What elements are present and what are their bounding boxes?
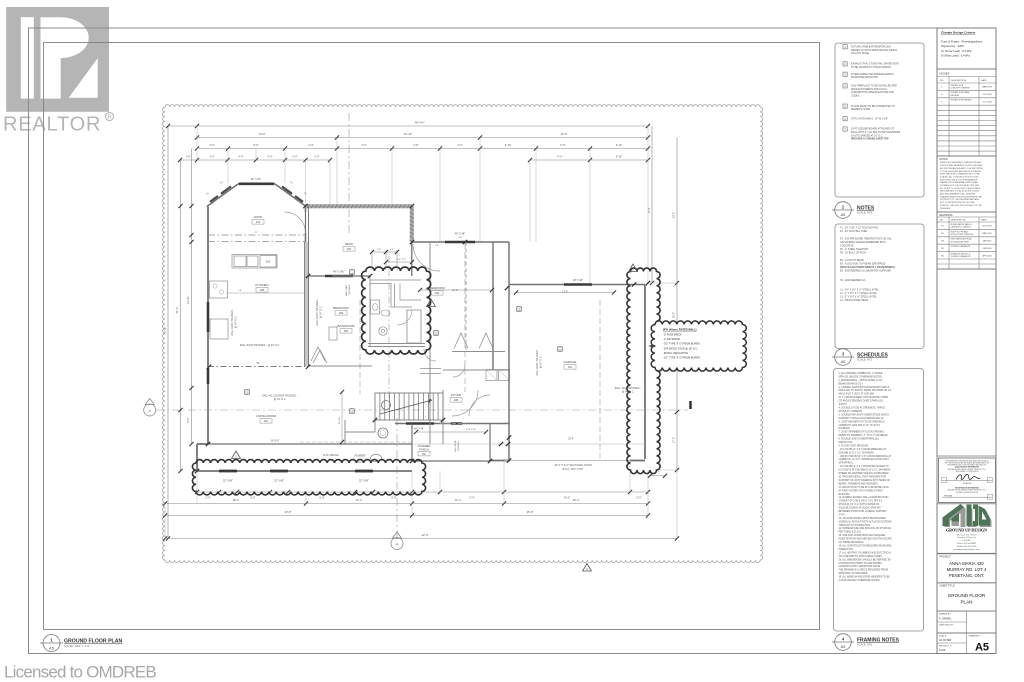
svg-text:TO THE DESIGNER BEFORE PROCEED: TO THE DESIGNER BEFORE PROCEEDING — [940, 171, 981, 173]
dimension drop lines from top tiers — [196, 126, 198, 160]
beam dash line kitchen y241.5 — [208, 241, 306, 243]
front door bars — [406, 422, 434, 424]
svg-text:15. SUB-SOIL CONDITIONS MAY RE: 15. SUB-SOIL CONDITIONS MAY REQUIRE — [839, 534, 886, 537]
svg-text:3'-0": 3'-0" — [209, 143, 214, 147]
svg-text:CHECKED BY:: CHECKED BY: — [939, 624, 954, 626]
svg-text:NOT TO BE REPRODUCED OR USED: NOT TO BE REPRODUCED OR USED — [940, 202, 976, 204]
svg-text:13'-2": 13'-2" — [673, 212, 676, 218]
svg-text:L3 - 5" X 3½" X ⅜" STEEL LINTE: L3 - 5" X 3½" X ⅜" STEEL LINTEL — [840, 295, 877, 299]
svg-text:Gr (Snow Load) : 2.9 kPa: Gr (Snow Load) : 2.9 kPa — [941, 49, 972, 53]
svg-text:OF THESE DRAWINGS: OF THESE DRAWINGS — [839, 541, 864, 544]
svg-text:NO.: NO. — [940, 220, 944, 222]
svg-text:MONOXIDE DETECTOR: MONOXIDE DETECTOR — [851, 76, 878, 79]
bay diag left window bars — [221, 187, 231, 194]
svg-text:@ 24" O.C.: @ 24" O.C. — [622, 391, 635, 394]
svg-text:SUPPORT OF JOIST FRAMING INTO: SUPPORT OF JOIST FRAMING INTO SIDES OF — [839, 479, 891, 482]
svg-text:STRAPPING): STRAPPING) — [839, 462, 853, 465]
svg-text:20'-8": 20'-8" — [285, 510, 292, 514]
svg-text:8'-0": 8'-0" — [253, 143, 258, 147]
y444 grid line extension — [412, 443, 645, 445]
kitchen corner pantry chevrons — [311, 347, 325, 361]
grid centerline horizontal — [156, 409, 688, 411]
svg-text:BUILDING: BUILDING — [839, 494, 850, 496]
hall south wall y370 — [443, 369, 510, 371]
grid marker west — [144, 404, 156, 416]
svg-text:4'-0": 4'-0" — [239, 156, 244, 159]
svg-text:DESIGNER.: DESIGNER. — [940, 208, 951, 210]
svg-text:SITE SERVICES PLAN: SITE SERVICES PLAN — [951, 238, 972, 241]
svg-text:MM (1-9/16" X 3/16") AT 2000 M: MM (1-9/16" X 3/16") AT 2000 MM — [839, 393, 874, 396]
kitchen east shear wall band — [305, 242, 309, 367]
svg-text:12. DOUBLE STOREY WALL CONSTRU: 12. DOUBLE STOREY WALL CONSTRUCTION — [839, 496, 889, 499]
svg-text:28'-0": 28'-0" — [233, 498, 240, 502]
svg-text:3'-0": 3'-0" — [293, 156, 298, 159]
kitchen fridge — [210, 319, 228, 339]
bedroom north wall y276 — [308, 275, 370, 277]
bottom dim drop lines — [164, 504, 166, 539]
svg-text:WHERE NO FINISHED CEILING IS P: WHERE NO FINISHED CEILING IS PROVIDED — [839, 473, 889, 475]
left dim horizontal stub — [168, 125, 197, 127]
left exterior wall — [207, 207, 209, 445]
kitchen counter band — [232, 255, 277, 269]
svg-text:Township of Tiny Ont.: Township of Tiny Ont. — [957, 536, 977, 539]
inner drawing area border — [44, 43, 820, 630]
svg-text:800MM TO 2000MM (2'-7" TO 6'-7: 800MM TO 2000MM (2'-7" TO 6'-7") DOUBLED — [839, 435, 888, 437]
svg-text:PLAN: PLAN — [960, 599, 972, 604]
bathroom tub — [407, 310, 421, 343]
svg-text:NOV 2019: NOV 2019 — [982, 226, 992, 228]
triangle marker near cloud band — [629, 264, 638, 272]
svg-text:DATE: DATE — [981, 79, 987, 82]
revisions rows — [937, 228, 996, 230]
svg-text:THROUGH TO FOUNDATION: THROUGH TO FOUNDATION — [839, 524, 871, 527]
svg-text:NO.: NO. — [940, 80, 944, 82]
svg-text:TOWNS COMMENTS: TOWNS COMMENTS — [951, 246, 971, 248]
svg-text:ROOF SLOPE AND: ROOF SLOPE AND — [951, 230, 969, 233]
svg-text:3'-2": 3'-2" — [402, 259, 407, 261]
living room south wall y444 — [208, 443, 412, 445]
deck east wall lower extension — [411, 242, 413, 276]
beam dashed line x360 — [359, 300, 361, 394]
svg-text:2. END BEARING - JOISTS 38 MM: 2. END BEARING - JOISTS 38 MM (1-1/2" — [839, 379, 883, 382]
svg-text:16'-0" X 8'-0" SECTIONAL DOOR: 16'-0" X 8'-0" SECTIONAL DOOR — [554, 464, 592, 467]
svg-text:WITH THE WORK. DRAWINGS NOT TO: WITH THE WORK. DRAWINGS NOT TO BE — [940, 173, 980, 176]
svg-text:664 Court, Rd. 73 East: 664 Court, Rd. 73 East — [956, 533, 977, 536]
svg-text:10'-10": 10'-10" — [404, 132, 413, 136]
bay wall diagonal right — [275, 184, 306, 206]
svg-text:REVISIONS: REVISIONS — [940, 214, 953, 217]
right dim connector stubs — [648, 282, 677, 284]
svg-text:NATIONAL AND LOCAL BUILDING CO: NATIONAL AND LOCAL BUILDING CODES — [940, 190, 980, 193]
kitchen south dashed ceiling break y366.5 — [208, 366, 308, 368]
svg-text:SPRUCE UNLESS OTHERWISE NOTED.: SPRUCE UNLESS OTHERWISE NOTED. — [839, 376, 883, 378]
svg-text:10A: 10A — [256, 220, 261, 224]
svg-text:10D: 10D — [454, 398, 459, 402]
svg-text:BETWEEN STUDS FOR LATERAL SUPP: BETWEEN STUDS FOR LATERAL SUPPORT — [839, 510, 888, 513]
hall-bedroom door arc — [469, 395, 490, 416]
svg-text:STRUCTURAL MEMBERS ON SITE. AN: STRUCTURAL MEMBERS ON SITE. ANY AND — [940, 164, 983, 167]
svg-text:8. DOUBLE JOIST UNDER PARALLEL: 8. DOUBLE JOIST UNDER PARALLEL — [839, 438, 880, 441]
svg-text:5'-8": 5'-8" — [251, 497, 256, 500]
svg-text:10G: 10G — [435, 291, 440, 295]
sheet title box — [937, 583, 996, 611]
bathroom shower corner — [399, 284, 401, 301]
svg-text:4'-6": 4'-6" — [361, 143, 366, 147]
powder toilet oval — [371, 454, 382, 461]
svg-text:DRAWN BY:: DRAWN BY: — [939, 613, 952, 616]
revisions table — [937, 212, 996, 269]
deck east wall (hatched) — [410, 206, 414, 242]
bedroom south wall y366 — [308, 365, 372, 367]
bathroom grid dash — [388, 256, 390, 400]
svg-text:Sr (Rain Load) : 0.4 kPa: Sr (Rain Load) : 0.4 kPa — [941, 54, 970, 58]
living window bar on left wall — [207, 368, 210, 384]
bedroom mid east wall x466 — [465, 242, 467, 352]
svg-text:SUPPORT LINTELS IN EXTERIOR WA: SUPPORT LINTELS IN EXTERIOR WALLS — [839, 417, 885, 420]
bedroom2 door arc — [413, 244, 440, 271]
svg-text:REVIEW: REVIEW — [951, 95, 959, 97]
bedroom window bar y242 — [445, 241, 475, 244]
svg-text:10L: 10L — [422, 453, 427, 456]
garage north wall y284.5 — [509, 284, 645, 286]
triangle marker living — [232, 451, 241, 459]
svg-text:2100 MM (6'-11") O.C. MAXIMUM: 2100 MM (6'-11") O.C. MAXIMUM — [839, 451, 874, 454]
svg-text:2'-2": 2'-2" — [390, 249, 394, 251]
svg-text:INSPECTION: INSPECTION — [839, 549, 854, 551]
svg-text:UNDER ALL WOOD POSTS IN FLOOR: UNDER ALL WOOD POSTS IN FLOOR SYSTEMS — [839, 520, 892, 523]
svg-text:(TYP): (TYP) — [839, 515, 845, 517]
svg-text:GROUND FLOOR: GROUND FLOOR — [948, 593, 986, 598]
svg-text:ON LAST PAGE): ON LAST PAGE) — [851, 52, 869, 55]
svg-text:APR 2020: APR 2020 — [982, 254, 992, 257]
svg-text:CODES: CODES — [851, 95, 860, 98]
svg-text:Licensed to OMDREB: Licensed to OMDREB — [4, 663, 156, 682]
top dimension tier 4 bay — [180, 159, 330, 161]
svg-text:CONTRACTOR PRIOR TO AND DURING: CONTRACTOR PRIOR TO AND DURING — [839, 562, 883, 565]
svg-text:48" X 48": 48" X 48" — [414, 428, 424, 431]
garage window bar — [564, 283, 592, 286]
svg-text:@ 24" O.C.: @ 24" O.C. — [235, 316, 238, 329]
svg-text:5'-4": 5'-4" — [470, 497, 475, 500]
closet double lines — [420, 368, 441, 370]
svg-text:A5: A5 — [841, 645, 846, 649]
svg-text:INVESTIGATION AND ARE BEYOND T: INVESTIGATION AND ARE BEYOND THE SCOPE — [839, 538, 893, 541]
svg-text:A: A — [148, 408, 151, 413]
svg-text:- 19 X 89 MM (1" X 4") STRAPPI: - 19 X 89 MM (1" X 4") STRAPPING NAILED … — [839, 465, 889, 468]
center block east wall x430 — [429, 242, 431, 444]
svg-text:KITCHEN: KITCHEN — [255, 283, 268, 287]
svg-text:9F% (45min. RATED WALL): 9F% (45min. RATED WALL) — [663, 328, 697, 332]
svg-text:5'-6": 5'-6" — [560, 143, 565, 147]
garage door opening line — [504, 460, 630, 462]
svg-text:Climate Design Criteria: Climate Design Criteria — [941, 31, 975, 35]
south wall y471 — [197, 470, 412, 472]
svg-text:STUDS AT CORNERS: STUDS AT CORNERS — [839, 410, 863, 413]
east step wall x493 inner face — [492, 242, 494, 370]
svg-text:1. ALL FRAMING LUMBER NO. 2 GR: 1. ALL FRAMING LUMBER NO. 2 GRADE — [839, 372, 883, 375]
svg-text:SCALE: 3/16" = 1'-0": SCALE: 3/16" = 1'-0" — [64, 644, 90, 648]
svg-text:12'-0": 12'-0" — [452, 290, 458, 292]
top dimension tier 2 — [197, 137, 648, 139]
svg-text:10E: 10E — [339, 311, 344, 315]
top dimension tier 4 right — [530, 159, 648, 161]
bathroom west wall — [369, 276, 371, 346]
svg-text:14'-0": 14'-0" — [258, 132, 265, 136]
west jog wall — [196, 444, 198, 471]
svg-text:2-2X10 UNLESS OTHERWISE NOTED.: 2-2X10 UNLESS OTHERWISE NOTED. — [839, 580, 881, 582]
stamp box — [939, 458, 996, 503]
svg-text:JAN 2020: JAN 2020 — [983, 240, 993, 243]
svg-text:(2PC): (2PC) — [357, 462, 363, 464]
svg-text:(10M): (10M) — [357, 459, 363, 461]
svg-text:SCALED. ALL CONSTRUCTION IS TO: SCALED. ALL CONSTRUCTION IS TO BE — [940, 175, 979, 178]
svg-text:5. DOUBLE RIM JOIST UNDER STUD: 5. DOUBLE RIM JOIST UNDER STUDS WHICH — [839, 414, 890, 416]
svg-text:32" X 60": 32" X 60" — [223, 480, 233, 483]
beam dashed line x600 garage — [599, 300, 601, 458]
svg-text:4. DOUBLE STUDS AT OPENINGS, T: 4. DOUBLE STUDS AT OPENINGS, TRIPLE — [839, 407, 886, 410]
bathroom hall walls — [370, 279, 421, 281]
svg-text:ENG. ROOF TRUSSES ↑ @ 24" O.C.: ENG. ROOF TRUSSES ↑ @ 24" O.C. — [240, 344, 280, 347]
svg-text:10. PROVIDE METAL JOIST HANGER: 10. PROVIDE METAL JOIST HANGERS FOR — [839, 476, 887, 479]
svg-text:L9M 0B5: L9M 0B5 — [962, 540, 971, 542]
svg-text:-3" FACE BRICK: -3" FACE BRICK — [663, 334, 682, 337]
svg-text:ISSUED FOR FINAL: ISSUED FOR FINAL — [951, 91, 971, 94]
foyer east wall x443 — [442, 390, 444, 444]
svg-text:THE DRAWINGS & SPECS REQUIRES: THE DRAWINGS & SPECS REQUIRES PRIOR — [839, 569, 889, 572]
revision cloud south windows band — [192, 460, 425, 495]
svg-text:@ 24" O.C.: @ 24" O.C. — [320, 306, 323, 319]
svg-text:10'-4": 10'-4" — [455, 498, 462, 502]
svg-text:1'6": 1'6" — [238, 290, 242, 292]
bay diag right window bars — [282, 187, 292, 194]
notes paragraph box — [937, 156, 996, 212]
svg-text:5'-10": 5'-10" — [616, 155, 623, 159]
svg-text:L2 - 4" X 3½" X ¼" STEEL LINTE: L2 - 4" X 3½" X ¼" STEEL LINTEL — [840, 291, 877, 295]
svg-text:MAR 2020: MAR 2020 — [982, 232, 992, 235]
svg-text:DOUBLED: DOUBLED — [839, 428, 851, 430]
kitchen counter line y293 — [226, 292, 304, 294]
laundry appliances — [486, 370, 497, 381]
structural junction ticks — [207, 365, 211, 369]
bay window bar — [239, 183, 274, 186]
svg-text:4'-0": 4'-0" — [457, 143, 462, 147]
porch south edge y461 — [412, 460, 490, 462]
svg-text:10F: 10F — [344, 329, 349, 333]
svg-text:14. MINIMUM SIZE AND SPACING O: 14. MINIMUM SIZE AND SPACING OF STUDS AS — [839, 527, 892, 530]
svg-text:SUITABLE FOR THE INTENDED PER: SUITABLE FOR THE INTENDED PER USE. — [940, 184, 980, 187]
nook east wall lower — [305, 233, 307, 242]
svg-text:2100MM (6'-11") O.C. MAXIMUM F: 2100MM (6'-11") O.C. MAXIMUM FLOOR JOIST — [839, 458, 890, 461]
kitchen sink — [234, 256, 246, 267]
grid centerline vertical upper — [348, 113, 350, 236]
bold wall mark I — [689, 401, 691, 409]
right dimension vertical inner — [651, 126, 653, 283]
kitchen stove — [210, 281, 228, 298]
svg-text:15'-4": 15'-4" — [568, 439, 574, 441]
beam dashed line x465 — [464, 243, 466, 392]
svg-text:12'4 X 4'0: 12'4 X 4'0 — [466, 429, 476, 431]
svg-text:15'-4": 15'-4" — [573, 498, 580, 502]
notes box rounded — [835, 43, 924, 197]
svg-text:56" X 60": 56" X 60" — [251, 178, 262, 181]
living room interior dim — [341, 392, 343, 442]
svg-text:Degree Day : 4200: Degree Day : 4200 — [941, 44, 964, 48]
svg-text:CONSTRUCTION. VARIATIONS FROM: CONSTRUCTION. VARIATIONS FROM — [839, 565, 880, 568]
svg-text:6. JOIST HEADERS AT FLOOR OPEN: 6. JOIST HEADERS AT FLOOR OPENINGS — [839, 420, 885, 423]
title block climate design criteria box — [937, 28, 996, 69]
svg-text:6'-10": 6'-10" — [616, 143, 623, 147]
REALTOR watermark logo — [3, 7, 114, 136]
svg-text:-1" AIR SPACE: -1" AIR SPACE — [663, 338, 680, 341]
svg-text:GROUND UP DESIGN: GROUND UP DESIGN — [946, 528, 987, 533]
svg-text:POWDER: POWDER — [355, 455, 366, 458]
svg-text:MURRAY RD. LOT 4: MURRAY RD. LOT 4 — [947, 567, 987, 572]
svg-text:51'-0": 51'-0" — [175, 307, 179, 314]
notes list items — [843, 45, 847, 49]
bathroom inner walls bottom — [368, 343, 425, 345]
svg-text:WITHOUT THE WRITTEN CONSENT OF: WITHOUT THE WRITTEN CONSENT OF THE — [940, 205, 982, 207]
svg-text:ANNA MARIA 430: ANNA MARIA 430 — [949, 561, 984, 566]
bay window top wall — [238, 183, 275, 185]
svg-text:STUDS @ 16" O.C. WITH 2 ROWS O: STUDS @ 16" O.C. WITH 2 ROWS OF — [839, 504, 880, 506]
scale box — [937, 633, 996, 654]
svg-text:BEDROOM: BEDROOM — [429, 286, 445, 290]
top dimension tier 1 overall — [197, 125, 648, 127]
beam dash line kitchen y235 — [208, 234, 306, 236]
svg-text:42'-0": 42'-0" — [421, 533, 428, 537]
framing notes circle 4/A5 — [835, 634, 852, 651]
svg-text:13. SOLID BLOCKING MUST BE PRO: 13. SOLID BLOCKING MUST BE PROVIDED — [839, 518, 887, 520]
rated wall arrow — [649, 345, 657, 347]
svg-text:SCALE:: SCALE: — [939, 634, 947, 637]
svg-text:ALL WORK TO CONFORM TO APPLICA: ALL WORK TO CONFORM TO APPLICABLE — [940, 187, 981, 190]
svg-text:Phone 705-549-8883: Phone 705-549-8883 — [957, 543, 977, 545]
svg-text:8'-4": 8'-4" — [648, 207, 651, 212]
bottom dimension tier 2 — [165, 503, 648, 505]
svg-text:A5: A5 — [841, 360, 846, 364]
svg-text:REQUIRED UNLESS DESIGN IS EXEM: REQUIRED UNLESS DESIGN IS EXEMPT UNDER D… — [948, 469, 987, 471]
title block divider vertical — [936, 28, 938, 654]
svg-text:2'-4": 2'-4" — [206, 497, 211, 500]
svg-text:40'-4¾": 40'-4¾" — [415, 121, 425, 125]
svg-text:K. GRAVEL: K. GRAVEL — [939, 618, 952, 621]
svg-text:4'-0": 4'-0" — [268, 156, 273, 159]
svg-text:- (OR 38 X 89 MM (2" X 4") CRO: - (OR 38 X 89 MM (2" X 4") CROSS BRIDGIN… — [839, 455, 892, 458]
svg-text:R: R — [107, 115, 112, 121]
schedules circle 3/A5 — [835, 349, 852, 366]
svg-text:A5: A5 — [49, 646, 55, 651]
note square markers — [350, 270, 354, 274]
svg-text:AND REQUIREMENTS. ALL DESIGNS,: AND REQUIREMENTS. ALL DESIGNS, — [940, 193, 976, 196]
bathroom toilet — [379, 327, 387, 335]
hall door arcs — [424, 349, 436, 361]
svg-text:TO CONFORM TO APPLICABLE CODES: TO CONFORM TO APPLICABLE CODES — [839, 555, 883, 558]
svg-text:REQUIRED UNLESS DESIGN IS EXEM: REQUIRED UNLESS DESIGN IS EXEMPT UNDER D… — [948, 490, 987, 492]
svg-text:(3") AND EXTENDING OVER 3 PARA: (3") AND EXTENDING OVER 3 PARALLEL — [839, 400, 884, 403]
svg-text:@ 24" O.C.: @ 24" O.C. — [540, 356, 543, 369]
svg-text:(PROVIDE FLASHING OVER TOP: (PROVIDE FLASHING OVER TOP — [851, 138, 889, 141]
svg-text:10C: 10C — [264, 419, 269, 423]
svg-text:17'-2": 17'-2" — [673, 437, 676, 443]
svg-text:LIVING ROOM: LIVING ROOM — [256, 414, 277, 418]
svg-text:6'-8": 6'-8" — [320, 497, 325, 500]
svg-text:57'-0": 57'-0" — [163, 327, 167, 334]
svg-text:AT FIRST STOREY OF A THREE STO: AT FIRST STOREY OF A THREE STOREY — [839, 489, 884, 492]
bedroom mid south wall y351.5 — [452, 351, 505, 353]
svg-text:NOT A RIDGE VENT: NOT A RIDGE VENT — [951, 240, 970, 243]
GUD logo graphic — [943, 504, 992, 527]
top dimension tier 3 — [197, 148, 648, 150]
svg-text:10'-4": 10'-4" — [356, 498, 363, 502]
project box — [937, 554, 996, 583]
svg-text:SCALE: NTS: SCALE: NTS — [857, 358, 872, 362]
svg-text:BEAMS 89 MM (3-1/2"): BEAMS 89 MM (3-1/2") — [839, 382, 863, 385]
svg-text:SHEET TITLE:: SHEET TITLE: — [940, 584, 956, 587]
svg-text:NOOK: NOOK — [254, 215, 263, 219]
wavy plot border cloud around plan — [163, 105, 763, 563]
svg-text:48" X 48": 48" X 48" — [455, 233, 466, 236]
svg-text:DATE: DATE — [981, 219, 987, 222]
foyer interior dim — [416, 431, 486, 433]
svg-text:NOTES:: NOTES: — [940, 159, 949, 161]
svg-text:COVERED: COVERED — [418, 444, 431, 448]
svg-text:SOLID BLOCKING AT EQUAL SPACIN: SOLID BLOCKING AT EQUAL SPACING — [839, 507, 882, 510]
powder room walls — [344, 420, 346, 444]
svg-text:4'-0": 4'-0" — [308, 143, 313, 147]
svg-text:8'-2": 8'-2" — [187, 417, 190, 422]
svg-text:F2 - 24" FOOTING TUBE: F2 - 24" FOOTING TUBE — [840, 230, 867, 233]
svg-text:4'-8": 4'-8" — [413, 143, 418, 147]
svg-text:7. JOIST TRIMMERS AT FLOOR OPE: 7. JOIST TRIMMERS AT FLOOR OPENING — [839, 431, 885, 434]
svg-text:ISSUED FOR PERMIT: ISSUED FOR PERMIT — [951, 100, 973, 102]
small dims above bathroom — [371, 250, 373, 270]
svg-text:U/S JOISTS AT 2100 MM (6'-11"): U/S JOISTS AT 2100 MM (6'-11") O.C. MAXI… — [839, 469, 891, 472]
svg-text:3. LATERAL SUPPORT FOR MASONRY: 3. LATERAL SUPPORT FOR MASONRY WALLS — [839, 386, 890, 389]
issues rows — [937, 89, 996, 91]
svg-text:L1 - 3½" X 3½" X ¼" STEEL LINT: L1 - 3½" X 3½" X ¼" STEEL LINTEL — [840, 288, 879, 292]
revision cloud bathroom area — [362, 267, 431, 354]
svg-text:A5: A5 — [975, 642, 989, 654]
svg-text:P3 - 2X BUILT UP POST: P3 - 2X BUILT UP POST — [840, 252, 867, 255]
svg-text:32" X 60": 32" X 60" — [274, 480, 284, 483]
closet bifold chevrons — [454, 333, 468, 349]
svg-text:TO BE VENTED TO THE EXTERIOR.: TO BE VENTED TO THE EXTERIOR. — [851, 66, 892, 69]
svg-text:CONSIST OF 2-38 X 140 (2 X 6"): CONSIST OF 2-38 X 140 (2 X 6") SPF # 1 — [839, 501, 883, 503]
svg-text:10K: 10K — [347, 247, 352, 251]
svg-text:APPROVAL OF DESIGNER.: APPROVAL OF DESIGNER. — [839, 572, 869, 575]
svg-text:A: A — [396, 542, 399, 547]
garage west thick wall outer face x509 — [508, 242, 510, 461]
svg-text:2'-8": 2'-8" — [435, 245, 440, 247]
svg-text:-1/2" TYPE 'X' GYPSUM BOARD: -1/2" TYPE 'X' GYPSUM BOARD — [663, 357, 700, 360]
triangle marker bath — [427, 299, 436, 307]
svg-text:9'-10": 9'-10" — [505, 143, 512, 147]
svg-text:17. ALL HEATING, PLUMBING AND: 17. ALL HEATING, PLUMBING AND ELECTRICAL — [839, 551, 892, 554]
triangle marker below plan — [583, 564, 592, 572]
svg-text:2'-8": 2'-8" — [377, 249, 381, 251]
svg-text:OCT 2019: OCT 2019 — [982, 102, 992, 104]
foyer front wall y423.5 — [395, 423, 510, 425]
svg-text:GROUND UP DESIGN BCIN 12109: GROUND UP DESIGN BCIN 121097 — [956, 492, 978, 494]
svg-text:Town of Project : Penetanguis: Town of Project : Penetanguishene — [941, 40, 983, 44]
svg-text:SCALE: NTS: SCALE: NTS — [857, 211, 872, 215]
small dim below cloud band — [650, 475, 665, 477]
stair risers — [379, 393, 381, 420]
svg-text:OCT 2019: OCT 2019 — [982, 94, 992, 96]
south wall window bars — [219, 470, 237, 473]
view title circle 1/A5 — [43, 635, 60, 652]
svg-text:BEDROOM: BEDROOM — [333, 306, 349, 310]
